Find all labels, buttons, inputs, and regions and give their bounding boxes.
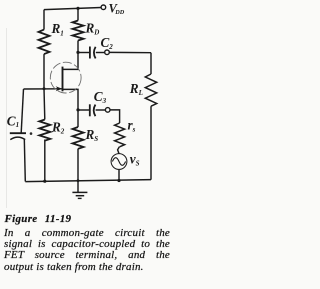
wire gate <box>24 88 62 90</box>
capacitor C2 <box>89 47 91 59</box>
transistor Q1 circle <box>50 62 81 93</box>
svg-text:R1: R1 <box>51 21 64 37</box>
svg-text:C3: C3 <box>94 89 107 105</box>
svg-text:RS: RS <box>85 127 99 143</box>
resistor RL <box>145 74 156 106</box>
wire bottom rail <box>25 180 151 182</box>
svg-text:vS: vS <box>130 152 140 168</box>
wire RS to bottom rail <box>77 149 79 181</box>
wire R2 to bottom rail <box>44 140 46 182</box>
node R2 bottom junction <box>43 180 46 183</box>
node VDD terminal <box>101 5 106 10</box>
wire rs to vs <box>118 147 120 154</box>
svg-text:C1: C1 <box>7 114 19 130</box>
wire drain lead <box>63 52 79 69</box>
resistor R2 <box>39 120 50 141</box>
capacitor C3 <box>89 104 91 116</box>
resistor rs <box>115 123 125 147</box>
svg-text:R2: R2 <box>51 120 65 136</box>
wire R1 to gate node <box>43 54 45 89</box>
node ground junction <box>77 179 80 182</box>
ground <box>77 181 79 192</box>
source vs sine <box>112 158 125 166</box>
speck right of C1 <box>30 132 33 135</box>
svg-text:RD: RD <box>85 21 100 37</box>
transistor Q1 channel bar <box>62 67 64 92</box>
wire source lead <box>63 89 79 110</box>
wire RL column top <box>150 53 152 74</box>
node gate junction <box>43 87 46 90</box>
wire vs to bottom rail <box>118 169 120 180</box>
svg-text:VDD: VDD <box>109 1 125 16</box>
svg-text:rs: rs <box>128 117 136 133</box>
node source C3 junction <box>76 108 79 111</box>
node drain C2 junction <box>76 51 79 54</box>
transistor Q1 gate arrow <box>56 86 63 91</box>
source vs circle <box>111 154 127 170</box>
wire output to RL column <box>109 51 151 53</box>
wire R1 column top <box>43 10 45 30</box>
node vs bottom junction <box>117 179 120 182</box>
capacitor C1 <box>10 132 26 134</box>
wire C1 drop <box>21 89 23 133</box>
node input terminal circle <box>105 108 110 113</box>
node top rail R_D junction <box>76 7 79 10</box>
wire RS column top <box>77 110 79 127</box>
wire C1 to bottom rail <box>24 139 25 182</box>
wire RD to drain node <box>77 41 79 53</box>
wire input to rs column <box>110 110 120 123</box>
wire R2 column top <box>43 89 46 120</box>
resistor R1 <box>39 30 50 55</box>
wire top rail <box>44 8 101 10</box>
node output terminal circle <box>105 50 110 55</box>
resistor RS <box>73 127 84 149</box>
svg-text:C2: C2 <box>101 35 114 51</box>
wire RD column top <box>77 8 79 20</box>
svg-text:RL: RL <box>129 81 143 97</box>
faint scan streak <box>6 28 8 208</box>
wire RL to bottom rail <box>150 106 152 180</box>
wire C3 to input terminal <box>96 109 106 111</box>
resistor RD <box>73 21 84 41</box>
wire source node to C3 <box>78 109 89 111</box>
wire C2 to output terminal <box>96 52 105 54</box>
wire drain node to C2 <box>78 52 89 54</box>
